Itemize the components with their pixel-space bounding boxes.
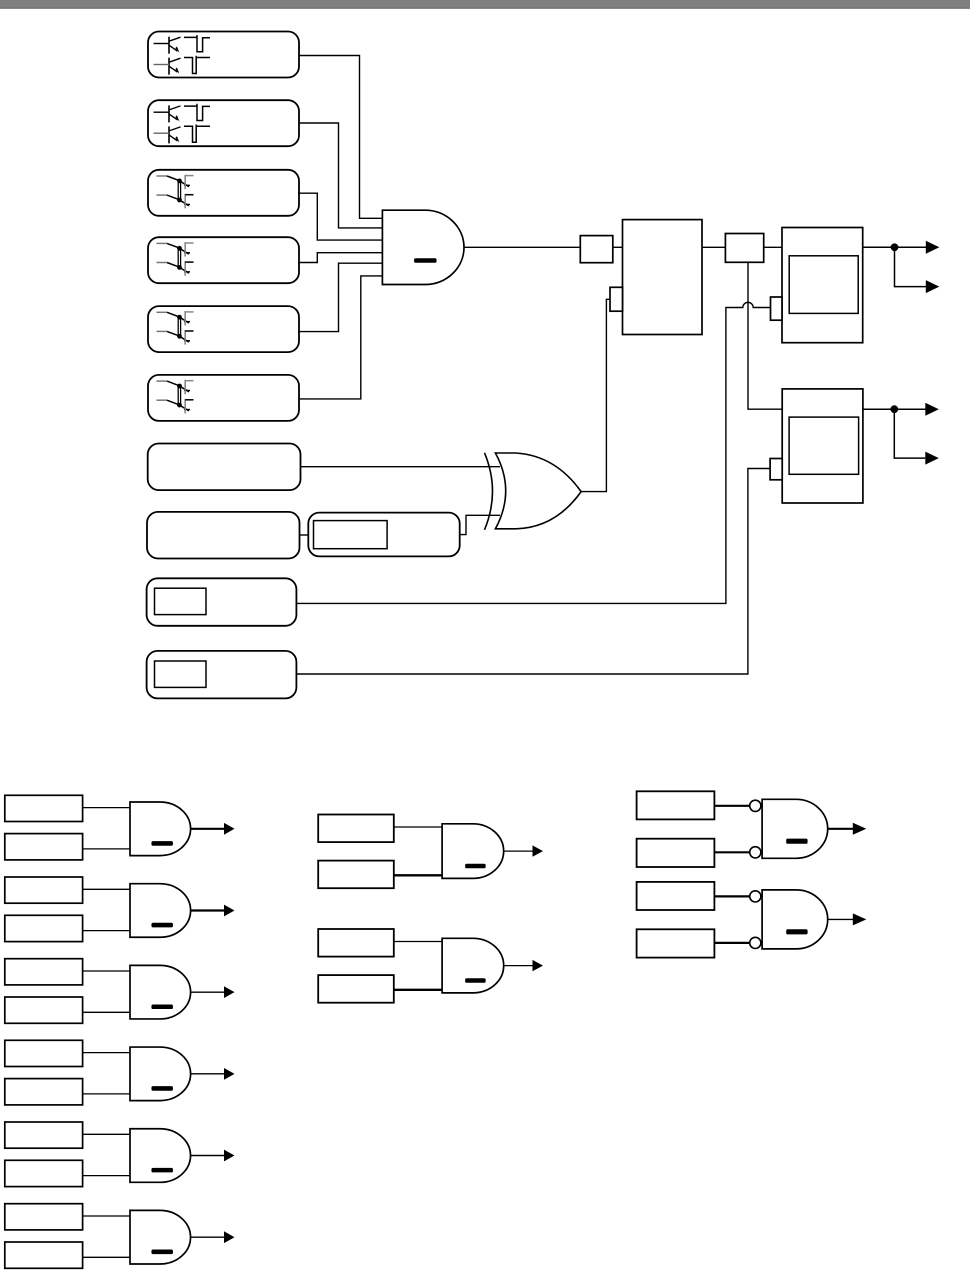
wire R13B to G13: [83, 1093, 130, 1095]
block K2: [147, 512, 300, 559]
wire U1 to block A2: [702, 246, 725, 248]
input register R30A: [637, 791, 715, 819]
wire G14 output arrow: [191, 1155, 225, 1157]
wire K2 to K3: [300, 534, 309, 536]
wire R30A to G30: [714, 805, 749, 807]
input register R11A: [5, 877, 83, 903]
wire U3 Q branch: [894, 409, 925, 458]
wire G10 output arrow: [191, 828, 225, 830]
AND gate G31: [762, 890, 828, 949]
wire A1 to counter U1: [613, 246, 623, 248]
AND gate G13: [130, 1047, 191, 1101]
junction node U3: [890, 405, 898, 413]
input register R12B: [5, 997, 83, 1023]
wire A2 to flip-flop U2: [764, 246, 782, 248]
block K5: [147, 651, 297, 699]
AND gate G14: [130, 1129, 191, 1183]
block A1: [580, 236, 613, 263]
flip-flop U2: [782, 228, 863, 343]
counter block U1: [623, 220, 703, 335]
input conditioner IN4: [148, 237, 299, 283]
wire R11A to G11: [83, 888, 130, 890]
wire IN3 to NAND G1: [298, 193, 382, 240]
block A2: [725, 234, 763, 263]
wire R31A to G31: [714, 895, 749, 897]
input register R20B: [318, 861, 394, 889]
wire U2 Q output: [863, 246, 926, 248]
wire G20 output arrow: [504, 850, 533, 852]
block K4: [147, 578, 297, 626]
wire K3 to XOR G2: [460, 515, 500, 534]
wire G13 output arrow: [191, 1073, 225, 1075]
wire R31B to G31: [714, 942, 749, 944]
AND gate G15: [130, 1210, 191, 1264]
wire R21A to G21: [394, 941, 442, 943]
input conditioner IN3: [148, 170, 299, 216]
wire R30B to G30: [714, 851, 749, 853]
wire IN6 to NAND G1: [299, 276, 382, 399]
arrow U3 Q: [925, 403, 939, 416]
AND gate G20: [442, 824, 504, 879]
AND gate G12: [130, 965, 191, 1019]
wire R12B to G12: [83, 1011, 130, 1013]
wire IN1 to NAND G1: [299, 56, 382, 219]
wire K1 to XOR G2: [301, 466, 501, 468]
input register R10A: [5, 795, 83, 821]
input register R20A: [318, 815, 394, 843]
input conditioner IN1: [148, 32, 299, 78]
input register R30B: [637, 839, 715, 867]
AND gate G11: [130, 884, 191, 938]
wire U2 Q branch: [895, 247, 927, 286]
input register R21B: [318, 975, 394, 1003]
wire R14B to G14: [83, 1175, 130, 1177]
input register R31A: [637, 882, 715, 910]
AND gate G21: [442, 938, 504, 993]
input register R11B: [5, 915, 83, 941]
header bar: [0, 0, 970, 9]
wire R10A to G10: [83, 807, 130, 809]
arrow U2 Q2: [926, 280, 940, 293]
wire G31 output arrow: [828, 918, 854, 920]
wire G11 output arrow: [191, 909, 225, 911]
input register R13A: [5, 1040, 83, 1066]
wire G30 output arrow: [828, 828, 854, 830]
wire G21 output arrow: [504, 965, 533, 967]
counter U1 enable tab: [610, 287, 623, 311]
wire R20B to G20: [394, 874, 442, 876]
input register R14B: [5, 1160, 83, 1186]
wire G1 output to block A1: [464, 246, 580, 248]
wire R13A to G13: [83, 1052, 130, 1054]
block K3: [308, 513, 459, 557]
input conditioner IN6: [148, 375, 299, 421]
junction node U2: [891, 243, 899, 251]
wire U3 Q output: [863, 408, 926, 410]
input conditioner IN5: [148, 306, 299, 352]
AND gate G10: [130, 802, 191, 856]
input register R13B: [5, 1079, 83, 1105]
flip-flop U3: [782, 389, 863, 503]
wire R21B to G21: [394, 989, 442, 991]
inverter bubble G30 input A: [750, 800, 761, 811]
wire IN4 to NAND G1: [298, 253, 382, 263]
wire IN5 to NAND G1: [298, 263, 382, 331]
wire R14A to G14: [83, 1133, 130, 1135]
wire R10B to G10: [83, 848, 130, 850]
arrow U3 Q2: [925, 452, 939, 465]
flip-flop U2 clock tab: [771, 297, 783, 320]
XOR gate G2: [485, 453, 582, 530]
inverter bubble G30 input B: [750, 847, 761, 858]
wire R15A to G15: [83, 1215, 130, 1217]
input register R12A: [5, 959, 83, 985]
inverter bubble G31 input B: [750, 937, 761, 948]
wire G15 output arrow: [191, 1236, 225, 1238]
wire R12A to G12: [83, 970, 130, 972]
input register R14A: [5, 1122, 83, 1148]
AND gate G30: [762, 799, 828, 858]
wire R11B to G11: [83, 930, 130, 932]
arrow U2 Q: [926, 241, 940, 254]
wire R15B to G15: [83, 1256, 130, 1258]
wire K5 to U3 tab: [296, 469, 770, 675]
inverter bubble G31 input A: [750, 891, 761, 902]
input register R15B: [5, 1242, 83, 1268]
wire IN2 to NAND G1: [299, 123, 382, 228]
wire G2 output to U1 tab: [581, 299, 610, 491]
block K1: [148, 444, 301, 491]
input register R15A: [5, 1204, 83, 1230]
input register R10B: [5, 834, 83, 860]
wire R20A to G20: [394, 826, 442, 828]
wire A2 to flip-flop U3 clock: [748, 262, 782, 409]
NAND gate G1: [382, 210, 464, 284]
wire G12 output arrow: [191, 991, 225, 993]
input conditioner IN2: [148, 100, 299, 146]
flip-flop U3 clock tab: [770, 459, 782, 480]
input register R31B: [637, 929, 715, 957]
input register R21A: [318, 929, 394, 957]
wire K4 to U2 tab (with hop): [296, 302, 770, 603]
